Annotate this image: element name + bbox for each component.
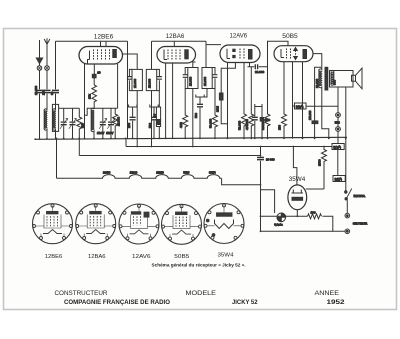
tag feed line (306, 105, 338, 107)
V4 cathode (281, 49, 284, 58)
svg-text:Schéma général du récepteur «: Schéma général du récepteur « Jicky 52 »… (152, 263, 246, 268)
V5 plate side wire (306, 188, 324, 190)
svg-text:150.000: 150.000 (308, 110, 312, 120)
base diagram 35W4 (204, 204, 244, 244)
capacitor 250 (44, 90, 51, 92)
V4 grids (287, 49, 291, 59)
speaker pin A (337, 87, 339, 113)
pilot lamp (277, 213, 286, 222)
svg-text:100: 100 (311, 211, 316, 215)
V5 plate (292, 197, 303, 200)
svg-text:10: 10 (97, 71, 101, 75)
svg-text:12BA6: 12BA6 (88, 254, 106, 260)
IF2 winding A (188, 68, 198, 89)
V1 cathode pin wire (84, 64, 86, 139)
capacitor 500 under IF2 (196, 95, 204, 104)
svg-text:10.000: 10.000 (34, 85, 38, 95)
svg-text:12BE6: 12BE6 (94, 35, 114, 41)
speaker pin B / switch feed (345, 87, 347, 191)
V1 top pins (101, 41, 107, 46)
V4 plate (303, 50, 307, 59)
transformer primary winding (319, 67, 322, 90)
svg-text:6,3v.3a: 6,3v.3a (274, 223, 283, 227)
resistor 500.000 (265, 67, 270, 139)
resistor 25.000 (113, 108, 118, 138)
IF1 trimmer left (129, 69, 132, 90)
svg-text:25.000: 25.000 (203, 76, 207, 86)
svg-text:ANNEE: ANNEE (315, 290, 340, 297)
svg-text:10k: 10k (88, 94, 92, 99)
V1 plate (113, 50, 117, 58)
resistor 470.000 (249, 67, 254, 139)
base diagram 12AV6 (119, 204, 159, 244)
antenna A triangle (36, 58, 42, 64)
filament feed drop (56, 139, 58, 179)
IF1 bottom wires (136, 91, 138, 147)
boxed resistor under IF1 trimmer (158, 91, 160, 107)
svg-text:500: 500 (194, 113, 198, 118)
filament line with humps (57, 175, 222, 179)
primary bottom to B+ (322, 90, 329, 139)
svg-text:COMPAGNIE FRANÇAISE DE RADIO: COMPAGNIE FRANÇAISE DE RADIO (64, 299, 170, 306)
tuned coil with shield box (52, 104, 58, 131)
tag 9(a1) (293, 105, 295, 107)
IF1 winding A (132, 69, 142, 90)
IF1 trimmer right (157, 69, 160, 90)
capacitor 60 (52, 90, 59, 92)
svg-text:1500: 1500 (318, 159, 322, 166)
IF2 trimmer right (212, 68, 215, 89)
svg-text:JICKY 52: JICKY 52 (232, 299, 258, 306)
coupling capacitor 20.000 (255, 64, 257, 69)
svg-text:50B5: 50B5 (282, 34, 298, 40)
V5 filament (292, 190, 304, 194)
V3 cathode (227, 49, 230, 59)
V4 plate wire (313, 54, 322, 68)
V5 bottom wire (296, 210, 298, 217)
variable capacitor VC1 (63, 108, 65, 121)
V2 plate wire (193, 62, 196, 68)
svg-text:1/2CV: 1/2CV (106, 131, 113, 135)
svg-text:50B5: 50B5 (174, 254, 189, 260)
wire (39, 70, 41, 89)
bracket + cap and resistor 680 (255, 104, 262, 117)
capacitor 10.000 (36, 90, 43, 92)
svg-text:35W4: 35W4 (209, 171, 216, 174)
bottom line (261, 230, 333, 232)
transformer left feed / B+ filter line (315, 67, 322, 121)
mains terminal 1 (345, 213, 350, 218)
tag 3(k) (333, 176, 345, 182)
svg-text:12BA6: 12BA6 (166, 34, 185, 40)
heater line (261, 215, 308, 217)
V3 plate wire (248, 63, 255, 67)
top wire A (56, 40, 128, 42)
resistor 100 (308, 214, 322, 219)
top link (94, 107, 118, 109)
resistor 10 (box) (92, 74, 96, 78)
speaker frame (330, 71, 354, 88)
top wire B (152, 40, 207, 42)
V4 grid return wire with tag (292, 62, 294, 139)
svg-text:500: 500 (148, 123, 152, 128)
svg-text:200: 200 (127, 123, 131, 128)
wire (46, 70, 48, 89)
svg-text:CONSTRUCTEUR: CONSTRUCTEUR (55, 290, 108, 297)
svg-text:4M2: 4M2 (179, 122, 183, 128)
antenna B fork (44, 38, 50, 44)
V3 pin wires (227, 63, 229, 139)
variable capacitor VC2 (72, 108, 74, 121)
svg-text:10 000: 10 000 (266, 157, 275, 161)
V1 pin wire to resistor 10 (93, 64, 95, 74)
capacitor 500 under IF1 (150, 105, 158, 117)
connector circles HPS (336, 113, 341, 118)
tag 3(a1) (332, 144, 344, 150)
svg-text:25.000: 25.000 (189, 76, 193, 86)
V4 beam arrows (294, 48, 298, 51)
antenna A mast (39, 40, 41, 58)
resistor x79 (77, 112, 82, 139)
variable capacitor VC4 (110, 108, 112, 121)
trimmer wire down w resistor (183, 89, 188, 139)
base diagram 12BA6 (76, 204, 116, 244)
V1 plate wire to IF1 (123, 54, 138, 69)
mains terminal 2 (345, 229, 350, 234)
tube V2 12BA6 envelope (157, 47, 196, 64)
svg-text:35W4: 35W4 (218, 252, 234, 258)
transformer core (325, 67, 328, 90)
V5 top wire (293, 147, 297, 185)
tube V3 12AV6 envelope (220, 45, 260, 63)
IF1 top wire to line B (151, 41, 153, 69)
V2 cathode (164, 50, 167, 60)
bus Y3 (79, 155, 260, 157)
tube V5 35W4 envelope (288, 185, 307, 210)
V3 plate (249, 50, 253, 60)
resistor right of IF2 (213, 89, 218, 139)
svg-text:60: 60 (50, 91, 54, 95)
svg-text:25.000: 25.000 (147, 78, 151, 88)
svg-text:25.000: 25.000 (133, 78, 137, 88)
tube V1 12BE6 envelope (79, 47, 123, 65)
svg-text:25.000: 25.000 (116, 116, 120, 126)
B+ bus Y2 (126, 146, 332, 148)
svg-text:HPS: HPS (335, 121, 340, 124)
svg-text:MODELE: MODELE (186, 290, 217, 297)
svg-text:12AV6: 12AV6 (132, 254, 151, 260)
filament dropper cap (260, 147, 262, 157)
svg-text:250: 250 (41, 90, 45, 95)
svg-text:10M: 10M (215, 106, 219, 112)
svg-text:680: 680 (265, 118, 270, 122)
svg-text:12BE6: 12BE6 (45, 254, 63, 260)
svg-text:1952: 1952 (327, 299, 345, 306)
base diagram 50B5 (162, 204, 202, 244)
svg-text:960: 960 (333, 80, 337, 85)
svg-text:12BE6: 12BE6 (156, 171, 164, 174)
IF1 winding B (146, 69, 156, 90)
V1 cathode (87, 51, 90, 65)
resistor 150.000 (box) (312, 121, 318, 124)
wire drop right (127, 41, 129, 138)
svg-text:50.000: 50.000 (209, 118, 213, 128)
svg-text:50B5: 50B5 (183, 171, 189, 174)
oscillator coil (loops) (91, 108, 94, 139)
wire drop left (55, 41, 57, 89)
chassis bus Y1 (35, 137, 348, 139)
lamp wiring (261, 190, 275, 213)
V3 grids (240, 49, 244, 60)
svg-text:52.000: 52.000 (238, 120, 242, 130)
svg-text:3(a¹): 3(a¹) (333, 145, 341, 149)
antenna B terminal (45, 66, 50, 71)
svg-text:1k5: 1k5 (80, 123, 84, 128)
speaker voice coil (352, 75, 356, 81)
svg-text:3(k¹): 3(k¹) (335, 177, 342, 181)
secondary winding (331, 70, 334, 85)
antenna coil (loops) (44, 94, 47, 139)
svg-text:20.000: 20.000 (255, 70, 265, 74)
resistor 52.000 (243, 63, 245, 115)
svg-text:12AV6: 12AV6 (103, 171, 111, 174)
antenna A terminal (37, 66, 42, 71)
svg-text:12BA6: 12BA6 (130, 171, 138, 174)
svg-text:10.000: 10.000 (315, 78, 319, 88)
resistor 10M box (219, 93, 223, 100)
svg-text:1/2CV: 1/2CV (97, 131, 104, 135)
V2 plate (185, 50, 188, 59)
V4 pin wires (282, 62, 287, 139)
speaker cone (356, 68, 363, 89)
svg-text:470.000: 470.000 (245, 119, 249, 130)
V2 grids (168, 50, 180, 61)
coil tap hook (85, 108, 95, 115)
V1 grids (94, 50, 110, 61)
IF2 trimmer left (185, 68, 188, 89)
resistor 1500 (322, 147, 327, 190)
IF2 bottom wires (192, 89, 194, 147)
V3 diode plates (233, 49, 235, 51)
svg-text:SECTEUR: SECTEUR (353, 222, 368, 226)
svg-text:INTERR.: INTERR. (354, 194, 366, 198)
svg-text:35W4: 35W4 (289, 177, 306, 183)
base diagram 12BE6 (33, 204, 73, 244)
tube V4 50B5 envelope (274, 46, 313, 62)
switch (345, 191, 347, 193)
variable capacitor VC3 (102, 108, 104, 121)
svg-text:150: 150 (278, 125, 282, 130)
resistor 10k zigzag (92, 85, 97, 109)
V2 pin wires (165, 63, 167, 139)
IF2 winding B (202, 68, 212, 89)
capacitor 200 under IF1 (129, 105, 137, 117)
svg-text:12AV6: 12AV6 (230, 33, 248, 39)
